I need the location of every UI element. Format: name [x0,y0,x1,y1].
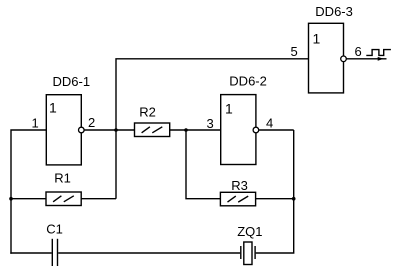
arrow on output wire [378,57,384,61]
svg-text:6: 6 [355,44,362,59]
wire ZQ1 to right vertical [256,130,294,253]
wire vertical A up and top wire to DD6-3 [116,59,309,199]
svg-text:DD6-2: DD6-2 [229,74,267,89]
wire R1 left [11,198,46,200]
resistor R2 slashes [142,127,150,133]
resistor R3 slashes [228,196,236,202]
svg-text:R3: R3 [231,178,248,193]
inversion bubble DD6-1 [79,127,85,133]
resistor R1 box [46,192,81,206]
wire bottom left to C1 [10,252,51,254]
junction node right R3 [292,197,296,201]
junction node left R1 [9,197,13,201]
wire R1 right to vertical A [81,198,116,200]
inversion bubble DD6-3 [341,56,347,62]
svg-text:1: 1 [32,115,39,130]
wire DD6-1 output to R2 [81,129,134,131]
svg-text:DD6-1: DD6-1 [53,74,91,89]
junction node at pin 3 [184,128,188,132]
svg-text:1: 1 [225,101,233,117]
wire vertical B down to R3 [186,130,220,199]
svg-text:4: 4 [266,116,273,131]
crystal ZQ1 plates [240,246,242,259]
wire DD6-2 output to right vertical [256,129,294,131]
output waveform symbol [366,50,391,56]
capacitor C1 plates [51,239,53,266]
crystal ZQ1 box [244,242,252,265]
wire DD6-3 output [344,58,387,60]
resistor R3 box [220,192,255,206]
wire R2 to DD6-2 input [170,129,221,131]
svg-text:ZQ1: ZQ1 [237,224,262,239]
inversion bubble DD6-2 [253,127,259,133]
svg-text:3: 3 [207,116,214,131]
svg-text:1: 1 [313,31,321,47]
op-amp U1 : gate DD6-1 box [46,95,81,165]
resistor R2 box [135,123,170,137]
wire input pin1 to DD6-1 [11,130,46,254]
svg-text:R1: R1 [54,170,71,185]
svg-text:5: 5 [291,44,298,59]
svg-text:DD6-3: DD6-3 [315,4,353,19]
gate DD6-3 box [309,23,344,93]
svg-text:C1: C1 [46,221,63,236]
wire R3 right to right vertical [256,198,294,200]
resistor R1 slashes [53,196,61,202]
gate DD6-2 box [221,95,256,165]
svg-text:R2: R2 [139,104,156,119]
wire C1 to ZQ1 [58,252,240,254]
svg-text:1: 1 [49,99,57,115]
svg-text:2: 2 [88,115,95,130]
junction node at pin 2 [114,128,118,132]
